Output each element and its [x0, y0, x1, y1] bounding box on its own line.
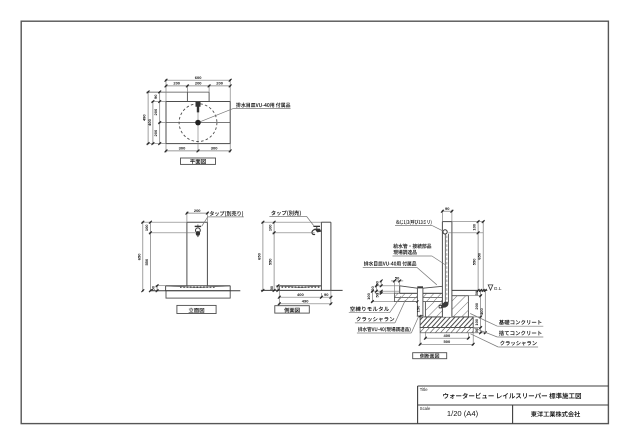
svg-text:300: 300 — [179, 146, 186, 151]
svg-text:1/20 (A4): 1/20 (A4) — [447, 409, 479, 418]
svg-text:90: 90 — [445, 206, 450, 211]
svg-text:50: 50 — [395, 276, 400, 281]
svg-text:300: 300 — [211, 146, 218, 151]
svg-text:50: 50 — [151, 285, 156, 290]
svg-text:90: 90 — [324, 292, 329, 297]
svg-text:490: 490 — [302, 299, 309, 304]
svg-text:650: 650 — [256, 252, 261, 259]
svg-text:400: 400 — [444, 333, 451, 338]
svg-text:100: 100 — [474, 318, 479, 325]
svg-text:200: 200 — [194, 208, 201, 213]
svg-text:490: 490 — [142, 114, 147, 121]
svg-text:100: 100 — [366, 292, 371, 299]
svg-text:200: 200 — [195, 81, 202, 86]
svg-text:50: 50 — [269, 285, 274, 290]
svg-text:200: 200 — [173, 81, 180, 86]
svg-text:200: 200 — [153, 129, 158, 136]
svg-text:400: 400 — [297, 292, 304, 297]
svg-text:200: 200 — [216, 81, 223, 86]
svg-text:400: 400 — [147, 118, 152, 125]
svg-text:G.L: G.L — [494, 286, 502, 292]
svg-text:550: 550 — [268, 258, 273, 265]
svg-text:Title: Title — [420, 387, 428, 392]
svg-text:550: 550 — [144, 258, 149, 265]
svg-text:600: 600 — [195, 75, 202, 80]
svg-text:200: 200 — [153, 108, 158, 115]
svg-text:400: 400 — [479, 307, 484, 314]
svg-text:100: 100 — [472, 223, 477, 230]
svg-text:650: 650 — [477, 252, 482, 259]
svg-text:20: 20 — [370, 286, 375, 291]
svg-text:90: 90 — [153, 94, 158, 99]
svg-text:150: 150 — [416, 305, 421, 312]
svg-text:650: 650 — [136, 253, 141, 260]
svg-text:50: 50 — [474, 290, 479, 295]
svg-text:100: 100 — [144, 224, 149, 231]
svg-text:100: 100 — [268, 224, 273, 231]
svg-text:Scale: Scale — [420, 406, 431, 411]
svg-text:50: 50 — [375, 292, 380, 297]
svg-text:500: 500 — [444, 339, 451, 344]
